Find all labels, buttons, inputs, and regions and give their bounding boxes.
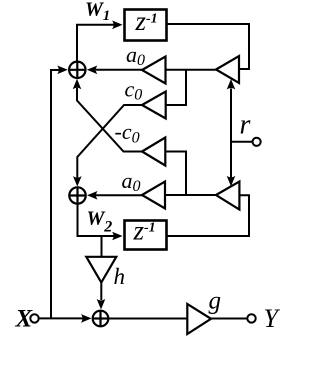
arrow up into top r triangle	[227, 79, 236, 90]
wire r to control verticals	[231, 89, 253, 142]
amplifier g (pointing right)	[187, 304, 211, 334]
delay z^-1 box Z2	[125, 221, 167, 250]
wire node W2: S2 output down and right to delay Z2	[78, 204, 117, 236]
wire S3 output to amplifier g	[109, 318, 188, 320]
wire top rail from r triangle tip to a0 input	[166, 69, 217, 71]
terminal r circle	[253, 138, 261, 146]
wire -c0 output: stub, diagonal up-left, into S1 bottom	[77, 88, 142, 152]
arrow into S3 top	[97, 299, 106, 310]
terminal Y circle	[247, 314, 255, 322]
wire node W1: S1 output up and right to delay	[77, 25, 116, 61]
op-amp bottom r triangle	[216, 182, 239, 210]
amplifier -c0	[142, 138, 165, 166]
arrow into S3 left	[81, 314, 92, 323]
svg-text:X: X	[15, 306, 34, 333]
svg-text:r: r	[240, 110, 251, 141]
amplifier h (pointing down)	[86, 257, 116, 283]
wire branch down to h amplifier	[101, 236, 103, 256]
wire g output to terminal Y	[211, 318, 247, 320]
arrow into delay Z1	[112, 21, 123, 30]
svg-text:Y: Y	[264, 304, 281, 333]
wire a0 output to S2 right	[96, 194, 142, 196]
wire Z1 output right and down to top r amplifier	[167, 24, 250, 69]
terminal X circle	[30, 314, 38, 322]
wire Z2 output right and up to bottom r amplifier	[167, 195, 250, 236]
wire branch up to -c0 input	[165, 152, 186, 196]
amplifier c0	[142, 92, 166, 119]
summing junction S3	[93, 311, 109, 327]
svg-text:h: h	[114, 264, 126, 289]
arrow into delay Z2	[112, 232, 123, 241]
wire a0 output to S1 right	[96, 69, 142, 71]
wire branch down to c0 input	[166, 70, 186, 105]
svg-text:g: g	[209, 288, 222, 315]
amplifier a0 bottom	[142, 182, 165, 209]
delay z^-1 box Z1	[125, 10, 167, 41]
amplifier a0 top	[142, 57, 166, 84]
arrow into S2 right	[87, 191, 98, 200]
wire r down branch	[230, 142, 232, 178]
arrow down into bottom r triangle	[227, 176, 236, 187]
op-amp top r triangle	[216, 56, 239, 83]
wire bottom rail from r triangle tip to a0 input	[165, 194, 216, 196]
summing junction S2	[69, 187, 85, 203]
wire left vertical from X line up to sum S1	[51, 70, 62, 318]
arrow into S1 left	[57, 66, 68, 75]
arrow into S1 bottom	[73, 79, 82, 90]
arrow into S1 right	[87, 66, 98, 75]
wire X input line from terminal to sum S3	[39, 317, 83, 319]
summing junction S1	[69, 62, 85, 78]
arrow into S2 top	[73, 176, 82, 187]
wire h output down to S3	[100, 283, 102, 301]
wire c0 output: stub, diagonal down-left, into S2 top	[77, 105, 142, 178]
